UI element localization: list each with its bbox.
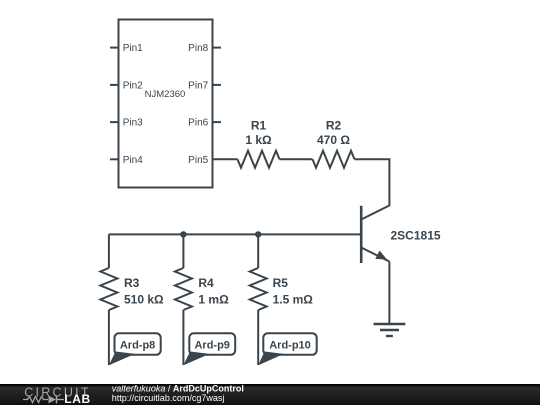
svg-text:R1: R1 xyxy=(251,118,267,132)
node junction dot at R4 tap xyxy=(180,231,186,237)
transistor Q1 collector diagonal xyxy=(361,206,389,220)
wire base bus xyxy=(109,233,361,235)
wire down to R4 xyxy=(182,234,184,268)
flag Ard-p10 tail xyxy=(258,352,284,366)
svg-text:Ard-p10: Ard-p10 xyxy=(269,339,311,351)
svg-text:Ard-p9: Ard-p9 xyxy=(194,339,229,351)
transistor Q1 body bar xyxy=(360,206,363,263)
flag Ard-p8 tail xyxy=(109,352,135,366)
transistor Q1 emitter arrowhead xyxy=(375,251,387,260)
svg-text:Pin3: Pin3 xyxy=(123,118,143,129)
wire R2 to collector xyxy=(355,159,390,206)
svg-text:510 kΩ: 510 kΩ xyxy=(124,292,164,306)
svg-text:valterfukuoka / ArdDcUpControl: valterfukuoka / ArdDcUpControl xyxy=(112,384,244,393)
wire pin5 to R1 xyxy=(213,158,238,160)
pin 4 stub xyxy=(110,158,119,160)
resistor R4 xyxy=(175,268,192,310)
pin 1 stub xyxy=(110,47,119,49)
node junction dot at R5 tap xyxy=(255,231,261,237)
svg-text:1 kΩ: 1 kΩ xyxy=(245,133,272,147)
svg-text:Pin2: Pin2 xyxy=(123,81,143,92)
svg-text:Pin5: Pin5 xyxy=(188,155,208,166)
wire R1 to R2 xyxy=(280,158,313,160)
flag Ard-p9 box xyxy=(189,333,235,355)
svg-text:1 mΩ: 1 mΩ xyxy=(198,292,229,306)
svg-text:2SC1815: 2SC1815 xyxy=(391,228,441,242)
wire R3 to flag xyxy=(108,310,110,365)
pin 3 stub xyxy=(110,121,119,123)
ground xyxy=(374,324,406,336)
svg-text:NJM2360: NJM2360 xyxy=(145,89,186,100)
pin 7 stub xyxy=(213,84,222,86)
resistor R1 xyxy=(238,151,280,168)
svg-text:R2: R2 xyxy=(326,118,342,132)
footer bar xyxy=(0,384,540,405)
svg-text:R4: R4 xyxy=(198,276,214,290)
svg-text:Pin8: Pin8 xyxy=(188,43,208,54)
svg-text:Pin6: Pin6 xyxy=(188,118,208,129)
flag Ard-p9 tail xyxy=(183,352,209,366)
pin 2 stub xyxy=(110,84,119,86)
svg-text:LAB: LAB xyxy=(64,392,90,405)
svg-text:Pin1: Pin1 xyxy=(123,43,143,54)
op-amp U1 NJM2360 IC body xyxy=(119,20,213,188)
CircuitLab logo resistor xyxy=(23,397,48,403)
resistor R5 xyxy=(250,268,267,310)
wire R5 to flag xyxy=(257,310,259,365)
svg-text:R3: R3 xyxy=(124,276,140,290)
svg-text:Pin7: Pin7 xyxy=(188,81,208,92)
svg-text:1.5 mΩ: 1.5 mΩ xyxy=(273,292,314,306)
pin 6 stub xyxy=(213,121,222,123)
CircuitLab logo diode xyxy=(49,396,57,404)
flag Ard-p10 box xyxy=(263,333,316,355)
svg-text:R5: R5 xyxy=(273,276,289,290)
wire down to R3 xyxy=(108,234,110,268)
resistor R2 xyxy=(313,151,355,168)
pin 8 stub xyxy=(213,47,222,49)
wire emitter down xyxy=(388,262,390,325)
svg-text:Ard-p8: Ard-p8 xyxy=(120,339,155,351)
svg-text:Pin4: Pin4 xyxy=(123,155,143,166)
flag Ard-p8 box xyxy=(115,333,161,355)
wire R4 to flag xyxy=(182,310,184,365)
transistor Q1 emitter diagonal xyxy=(361,248,389,262)
wire down to R5 xyxy=(257,234,259,268)
svg-text:http://circuitlab.com/cg7wasj: http://circuitlab.com/cg7wasj xyxy=(112,393,225,403)
svg-text:470 Ω: 470 Ω xyxy=(317,133,350,147)
resistor R3 xyxy=(100,268,117,310)
